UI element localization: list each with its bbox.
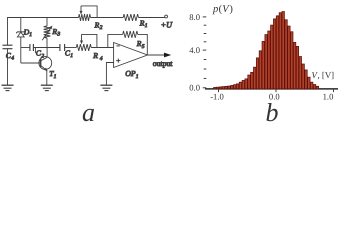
wire middle net — [21, 47, 114, 49]
label OP1 — [125, 69, 139, 80]
svg-text:a: a — [82, 98, 95, 127]
svg-text:, [V]: , [V] — [318, 70, 335, 80]
label R2 — [94, 21, 103, 32]
svg-text:b: b — [266, 98, 279, 127]
op-amp minus input pin — [116, 45, 119, 47]
chart axes — [203, 17, 338, 92]
svg-text:1: 1 — [54, 74, 57, 80]
svg-text:OP: OP — [125, 69, 136, 78]
op-amp U1 triangle — [114, 43, 148, 68]
svg-text:8.0: 8.0 — [189, 12, 200, 22]
svg-text:0.0: 0.0 — [189, 83, 200, 93]
label D1 — [23, 27, 32, 38]
chart x-axis title V,[V] — [312, 70, 335, 80]
chart x-axis labels — [210, 92, 333, 102]
histogram bars — [214, 12, 319, 89]
label +U — [161, 20, 174, 29]
svg-text:3: 3 — [56, 32, 60, 38]
label R4 — [92, 51, 103, 62]
resistor R3 (adjustable, arrow across) — [42, 18, 52, 48]
capacitor C2 — [30, 44, 34, 51]
svg-text:R: R — [92, 51, 98, 60]
junction stub — [34, 48, 36, 54]
svg-text:2: 2 — [41, 53, 44, 59]
svg-text:4.0: 4.0 — [189, 45, 200, 55]
svg-text:1: 1 — [145, 23, 148, 29]
chart y-axis labels — [189, 12, 200, 93]
ground (op-amp + input) — [100, 85, 112, 90]
transistor T1 — [21, 48, 52, 85]
capacitor C4 — [3, 45, 13, 85]
ground (emitter) — [41, 85, 53, 90]
chart title p(V) — [212, 4, 233, 15]
terminal +U — [165, 15, 168, 18]
caption b — [266, 98, 279, 127]
label output — [153, 59, 174, 68]
wire feedback left leg — [108, 34, 123, 47]
resistor R2 (trimmer with wiper loop) — [79, 6, 98, 21]
svg-text:1: 1 — [29, 32, 32, 38]
label R1 — [139, 18, 148, 29]
svg-text:output: output — [153, 59, 174, 68]
label C4 — [6, 51, 14, 62]
svg-text:5: 5 — [142, 44, 145, 50]
svg-text:1: 1 — [70, 53, 73, 59]
label R5 — [136, 39, 145, 50]
resistor R4 (trimmer with wiper loop) — [76, 34, 97, 51]
caption a — [82, 98, 95, 127]
wire feedback right leg — [138, 34, 148, 55]
capacitor C1 — [60, 44, 65, 51]
label C2 — [36, 49, 44, 60]
label C1 — [65, 49, 73, 60]
svg-text:+U: +U — [161, 20, 174, 29]
svg-text:): ) — [229, 4, 233, 15]
svg-text:1.0: 1.0 — [323, 92, 334, 102]
wire top supply rail — [8, 18, 165, 46]
label R3 — [51, 27, 60, 38]
svg-text:p: p — [212, 4, 218, 15]
svg-text:4: 4 — [11, 55, 14, 61]
svg-text:-1.0: -1.0 — [210, 92, 224, 102]
resistor R1 — [123, 14, 138, 21]
svg-text:2: 2 — [100, 25, 103, 31]
wire plus input to ground — [106, 63, 113, 85]
svg-text:1: 1 — [136, 74, 139, 80]
output wire and arrow — [147, 53, 171, 58]
op-amp plus input pin — [116, 59, 120, 63]
resistor R5 (feedback) — [123, 31, 138, 38]
svg-text:4: 4 — [100, 56, 103, 62]
ground (C4 branch) — [2, 85, 14, 90]
zener diode D1 — [16, 18, 25, 64]
label T1 — [49, 69, 56, 80]
